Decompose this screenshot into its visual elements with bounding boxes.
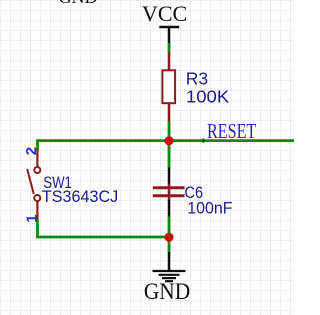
- junction bottom node: [164, 233, 173, 242]
- lever: [27, 169, 34, 194]
- svg-text:100K: 100K: [186, 87, 229, 106]
- svg-text:VCC: VCC: [142, 1, 187, 26]
- resistor R3: [162, 52, 175, 122]
- svg-text:GND: GND: [144, 278, 190, 304]
- svg-text:RESET: RESET: [207, 120, 257, 144]
- contact circle top: [34, 167, 40, 173]
- wire RESET horizontal with corner to SW1: [38, 141, 295, 150]
- power flag VCC: [142, 1, 187, 44]
- net label anchor tick: [202, 139, 204, 143]
- svg-text:TS3643CJ: TS3643CJ: [42, 186, 118, 205]
- wire VCC to R3: [168, 43, 171, 53]
- contact circle bottom: [34, 195, 40, 201]
- svg-text:R3: R3: [186, 69, 208, 89]
- ground symbol: [153, 252, 186, 281]
- switch SW1: [23, 147, 41, 223]
- capacitor C6: [153, 168, 185, 218]
- svg-text:GND: GND: [59, 0, 98, 7]
- wire R3 to capacitor: [168, 122, 171, 169]
- wire SW1 pin1 to bottom rail: [38, 219, 170, 237]
- pin 1 lead: [36, 202, 38, 220]
- pin 2 lead: [36, 149, 38, 166]
- junction RESET node: [164, 136, 173, 145]
- svg-text:100nF: 100nF: [187, 199, 232, 218]
- wire capacitor to ground junction: [168, 217, 171, 253]
